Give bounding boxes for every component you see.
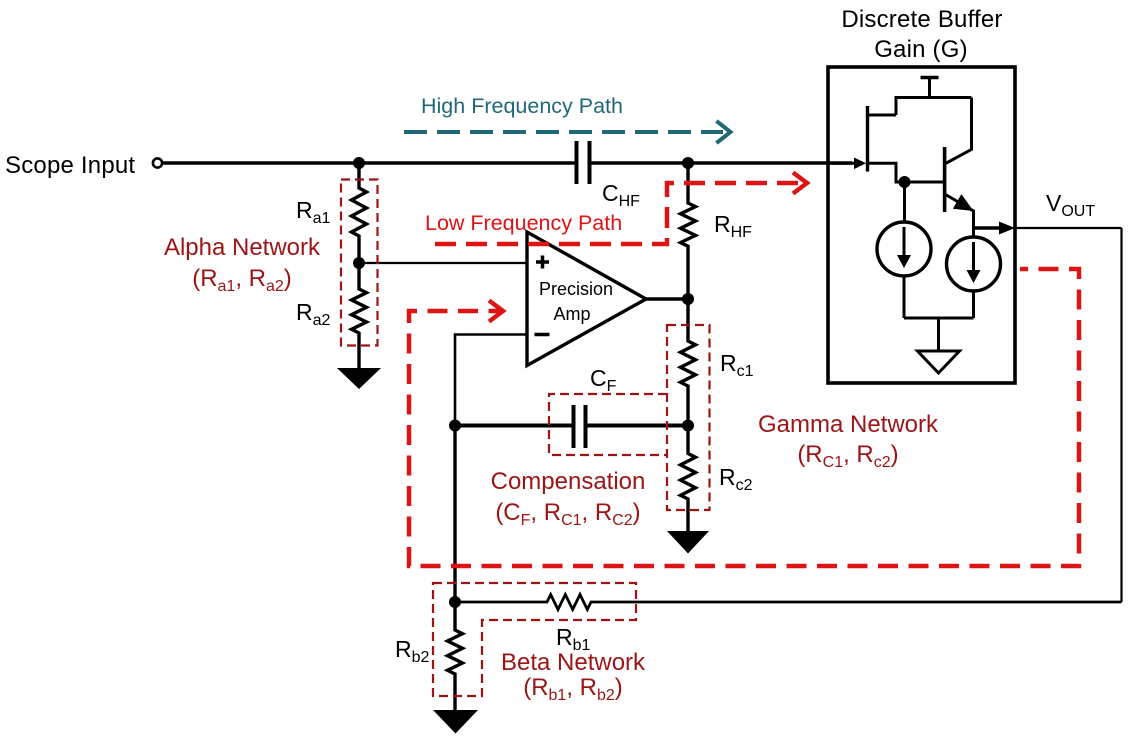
wire: op-amp output to node C xyxy=(646,297,688,300)
node C junction dot xyxy=(682,293,694,305)
supply T symbol xyxy=(921,76,939,79)
alpha network dashed box xyxy=(341,180,378,346)
current source I2 xyxy=(947,237,1001,291)
wire + resistor Rb1 xyxy=(455,595,1122,610)
svg-text:Ra1: Ra1 xyxy=(296,197,331,227)
beta network dashed outline xyxy=(433,583,636,696)
wire: VOUT down to beta xyxy=(1120,228,1122,602)
low frequency feedback dashed path (VOUT loop) xyxy=(409,269,1079,566)
transistor Q2 base bar xyxy=(943,147,947,212)
svg-text:Rb2: Rb2 xyxy=(395,636,430,666)
svg-text:Low Frequency Path: Low Frequency Path xyxy=(425,211,622,235)
svg-text:Rc2: Rc2 xyxy=(719,464,753,494)
buffer box outline xyxy=(828,67,1015,383)
svg-text:Rc1: Rc1 xyxy=(720,350,754,380)
svg-text:(RC1, Rc2): (RC1, Rc2) xyxy=(797,441,898,471)
wire: CHF right plate to node B and buffer input xyxy=(592,161,853,164)
low frequency path dashed arrow (amp to buffer) xyxy=(435,183,806,244)
resistor Ra1 xyxy=(352,163,367,263)
svg-text:Gain (G): Gain (G) xyxy=(874,36,968,63)
wire: feedback column down to beta node xyxy=(453,426,456,603)
svg-text:VOUT: VOUT xyxy=(1046,190,1095,220)
svg-text:Ra2: Ra2 xyxy=(296,299,331,329)
capacitor CF xyxy=(574,405,586,448)
resistor Rc1 xyxy=(681,299,696,426)
input terminal circle xyxy=(153,158,162,167)
node A junction dot xyxy=(353,157,365,169)
wire: CF left node to cap xyxy=(455,424,572,428)
wire: I1 bottom xyxy=(903,276,906,318)
ground (alpha) xyxy=(337,368,381,389)
Q2 emitter arrowhead xyxy=(953,194,974,211)
node: CF left junction dot xyxy=(449,420,461,432)
gamma network dashed box xyxy=(667,325,710,510)
output arrowhead xyxy=(999,222,1015,235)
wire: ground stem xyxy=(937,318,940,351)
node D (CF right) junction dot xyxy=(682,420,694,432)
ground (Rb2) xyxy=(433,710,478,734)
Q1 drain lead xyxy=(868,114,897,117)
svg-text:Scope Input: Scope Input xyxy=(5,152,135,179)
wire: sources join xyxy=(904,317,974,320)
Q1 gate arrowhead xyxy=(854,158,866,170)
ground (Rc2) xyxy=(667,531,709,554)
node B junction dot xyxy=(682,157,694,169)
ground (buffer, open) xyxy=(918,351,960,373)
wire: CF cap to node D xyxy=(588,424,689,428)
resistor Rb2 xyxy=(448,602,463,710)
op-amp + symbol xyxy=(536,256,549,269)
svg-text:Gamma Network: Gamma Network xyxy=(758,411,939,438)
wire: node A to CHF left plate xyxy=(359,161,575,164)
svg-text:Alpha Network: Alpha Network xyxy=(164,234,321,261)
wire: top rail xyxy=(896,98,972,116)
wire: I2 bottom xyxy=(972,291,975,318)
node: alpha divider tap xyxy=(353,257,365,269)
resistor Rc2 xyxy=(681,426,696,532)
wire: emitter output with arrowhead xyxy=(974,226,1001,229)
compensation dashed box xyxy=(549,394,667,455)
transistor Q1 JFET channel bar xyxy=(866,106,869,172)
svg-text:Discrete Buffer: Discrete Buffer xyxy=(841,6,1002,33)
svg-text:(CF, RC1, RC2): (CF, RC1, RC2) xyxy=(495,499,640,529)
resistor Ra2 xyxy=(352,263,367,368)
svg-text:Precision: Precision xyxy=(539,279,613,299)
svg-text:RHF: RHF xyxy=(714,211,752,241)
svg-text:(Ra1, Ra2): (Ra1, Ra2) xyxy=(192,265,292,295)
wire: buffer output to VOUT corner xyxy=(1015,227,1122,229)
wire: node F to current source I1 xyxy=(903,182,906,222)
wire: alpha tap to op-amp + input xyxy=(359,262,527,264)
op-amp - symbol xyxy=(535,333,550,337)
svg-text:CHF: CHF xyxy=(602,180,640,210)
capacitor CHF xyxy=(577,141,590,184)
wire: scope input to node A xyxy=(163,161,360,164)
Q2 collector xyxy=(945,98,972,165)
node F junction dot xyxy=(899,176,911,188)
svg-text:Compensation: Compensation xyxy=(491,468,646,495)
wire: feedback to op-amp - input xyxy=(455,335,527,426)
Q1 source lead xyxy=(868,163,945,182)
Q2 emitter xyxy=(945,194,974,237)
high frequency path dashed arrow xyxy=(404,130,723,134)
op-amp U1 Precision Amp xyxy=(527,232,646,366)
I2 arrow xyxy=(972,242,975,273)
svg-text:(Rb1, Rb2): (Rb1, Rb2) xyxy=(523,674,623,704)
resistor RHF xyxy=(681,163,696,299)
svg-text:Beta Network: Beta Network xyxy=(501,649,646,676)
node E (beta) junction dot xyxy=(449,596,461,608)
svg-text:High Frequency Path: High Frequency Path xyxy=(421,94,623,118)
Q1 gate wire from box edge xyxy=(828,162,856,165)
I1 arrow xyxy=(903,227,906,258)
svg-text:Amp: Amp xyxy=(553,304,590,324)
current source I1 xyxy=(877,222,931,276)
svg-text:CF: CF xyxy=(590,365,617,395)
